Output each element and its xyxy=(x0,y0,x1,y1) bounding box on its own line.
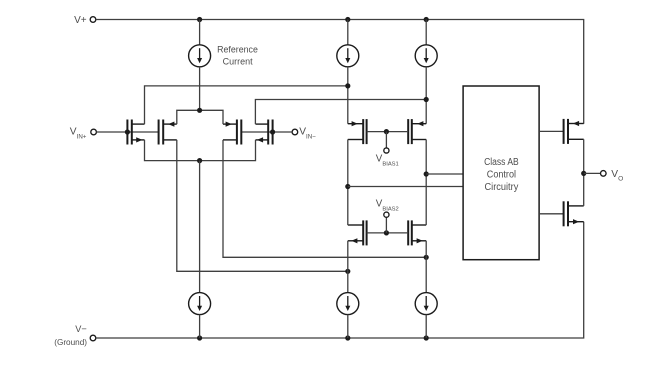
junction node A xyxy=(345,83,350,88)
svg-text:Current: Current xyxy=(223,56,254,66)
transistor Q9 (PMOS output) xyxy=(564,119,584,144)
wire Q4 drain to node B xyxy=(255,100,426,125)
terminal VIN- xyxy=(292,129,298,135)
transistor Q6 (PMOS cascode right) xyxy=(408,119,426,144)
svg-text:Control: Control xyxy=(487,170,516,181)
wire VIN+ to input gates xyxy=(96,131,158,133)
wire V+ rail xyxy=(96,20,584,124)
svg-text:Reference: Reference xyxy=(217,45,258,55)
wire I3 to cascode node B xyxy=(425,67,427,124)
current source reference xyxy=(189,45,211,67)
wire control box to Q10 gate xyxy=(539,213,564,215)
wire Q6 drain to Q8 drain xyxy=(425,140,427,226)
svg-text:V+: V+ xyxy=(74,15,87,26)
junction node C xyxy=(345,269,350,274)
transistor Q5 (PMOS cascode left) xyxy=(348,119,367,144)
wire reference current to input tail xyxy=(199,67,201,111)
junction node B xyxy=(424,97,429,102)
wire VBIAS1 gate node xyxy=(367,131,409,133)
wire NMOS pair tail xyxy=(145,140,256,161)
current source I4 xyxy=(337,293,359,315)
transistor Q3 (PMOS input, VIN-) xyxy=(223,120,241,145)
wire VBIAS2 stub xyxy=(385,217,387,233)
wire Q7 source to sink I4 xyxy=(347,241,349,293)
block Class AB Control Circuitry xyxy=(463,86,539,260)
wire left summing node to control box xyxy=(348,186,463,188)
wire V+ to current source I2 xyxy=(347,20,349,45)
svg-text:V−: V− xyxy=(75,324,87,334)
wire output node to VO terminal xyxy=(584,172,601,174)
svg-text:VIN+: VIN+ xyxy=(70,126,87,140)
junction V+ rail / reference current xyxy=(197,17,202,22)
svg-text:VBIAS1: VBIAS1 xyxy=(376,153,399,167)
junction NMOS tail node xyxy=(197,158,202,163)
svg-text:Class AB: Class AB xyxy=(484,157,519,168)
wire Q2 drain to node C xyxy=(177,140,348,271)
transistor Q8 (NMOS cascode right) xyxy=(408,220,426,245)
terminal V+ xyxy=(90,17,96,23)
current source I2 xyxy=(337,45,359,67)
wire Q9 drain to Q10 drain xyxy=(583,139,585,206)
svg-text:Circuitry: Circuitry xyxy=(485,182,519,193)
wire Q3 drain to node D xyxy=(223,140,426,257)
wire sink I4 to V- rail xyxy=(347,315,349,339)
transistor Q7 (NMOS cascode left) xyxy=(348,220,367,245)
wire right summing node to control box xyxy=(426,173,463,175)
wire Q1 drain to node A xyxy=(145,86,348,124)
junction VBIAS1 gate node xyxy=(384,129,389,134)
wire Q8 source to sink I5 xyxy=(425,241,427,293)
svg-text:VIN−: VIN− xyxy=(299,126,316,140)
wire VBIAS2 gate node xyxy=(367,232,409,234)
current source I3 xyxy=(415,45,437,67)
junction output node xyxy=(581,171,586,176)
junction V- rail / tail sink xyxy=(197,335,202,340)
current source I1 (tail sink) xyxy=(189,293,211,315)
junction V+ rail / current source I3 xyxy=(424,17,429,22)
terminal VBIAS1 xyxy=(384,148,389,153)
junction node D xyxy=(424,255,429,260)
junction V- rail / sink I5 xyxy=(424,335,429,340)
wire sink I1 to V- rail xyxy=(199,315,201,339)
wire I2 to cascode node A xyxy=(347,67,349,124)
junction PMOS tail node xyxy=(197,108,202,113)
wire V+ to reference current xyxy=(199,20,201,45)
current source I5 xyxy=(415,293,437,315)
junction VBIAS2 gate node xyxy=(384,230,389,235)
terminal VBIAS2 xyxy=(384,212,389,217)
wire V- rail xyxy=(96,222,584,338)
terminal VO xyxy=(601,171,607,177)
junction summing node right xyxy=(424,171,429,176)
terminal VIN+ xyxy=(91,129,97,135)
junction V+ rail / current source I2 xyxy=(345,17,350,22)
transistor Q4 (NMOS input, VIN-) xyxy=(256,120,273,145)
transistor Q1 (NMOS input, VIN+) xyxy=(127,120,144,145)
junction summing node left xyxy=(345,184,350,189)
junction VIN+ at Q1 gate xyxy=(125,129,130,134)
wire Q5 drain to Q7 drain xyxy=(347,140,349,226)
wire sink I5 to V- rail xyxy=(425,315,427,339)
wire VIN- to input gates xyxy=(241,131,292,133)
terminal V- (ground) xyxy=(90,335,96,341)
svg-text:VBIAS2: VBIAS2 xyxy=(376,199,399,213)
wire PMOS pair tail xyxy=(177,110,223,124)
junction V- rail / sink I4 xyxy=(345,335,350,340)
wire NMOS tail to sink I1 xyxy=(199,161,201,293)
junction VIN- at Q4 gate xyxy=(270,129,275,134)
wire V+ to current source I3 xyxy=(425,20,427,45)
transistor Q2 (PMOS input, VIN+) xyxy=(159,120,177,145)
wire control box to Q9 gate xyxy=(539,130,564,132)
svg-text:(Ground): (Ground) xyxy=(54,338,87,347)
transistor Q10 (NMOS output) xyxy=(564,201,584,226)
wire VBIAS1 stub xyxy=(385,132,387,148)
svg-text:VO: VO xyxy=(611,169,623,183)
